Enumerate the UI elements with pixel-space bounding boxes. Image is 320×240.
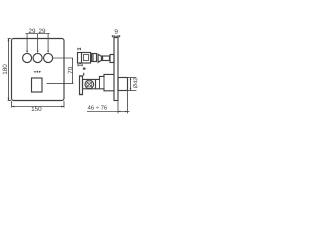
dim text 180 [3, 64, 7, 74]
knob circle left [23, 53, 32, 62]
dim 46-76 line [87, 111, 130, 113]
knurl circle outer [85, 80, 94, 89]
knurl cross line 1 [86, 82, 92, 88]
knurl circle inner [87, 82, 92, 87]
lower body front part [83, 74, 115, 90]
lower flange [80, 76, 83, 95]
tiny dim square center mark [37, 71, 39, 73]
dim 9 ext right [117, 35, 119, 37]
arrowhead circle middle [37, 51, 39, 53]
dim 150 ext left [11, 101, 13, 108]
dim text 150 [32, 107, 42, 111]
arrowhead lower flange dim [83, 74, 85, 76]
dim 180 ext bottom [8, 100, 12, 102]
lower body detail line 1 [95, 79, 97, 88]
lower body rear part [118, 78, 128, 91]
dim 180 line [8, 39, 10, 101]
knob barrel [102, 56, 110, 61]
knurl cross line 2 [86, 82, 92, 88]
arrowhead 180 top [8, 39, 10, 42]
dim text 9 [115, 29, 118, 33]
arrowhead circle left [26, 51, 28, 53]
knob flange [110, 55, 114, 63]
leader from circle right [53, 57, 73, 59]
knob barrel line [102, 56, 104, 61]
lower flange bottom cap [79, 94, 83, 96]
arrowhead circle right [47, 51, 49, 53]
tiny dim above upper body [77, 48, 81, 51]
knob circle middle [33, 53, 42, 62]
front plate [12, 39, 65, 101]
dim 29-29 line [25, 33, 49, 35]
diverter square [32, 78, 43, 92]
upper cartridge divider [81, 53, 83, 64]
dim 150 line [12, 106, 65, 108]
knob cap [98, 54, 101, 62]
arrowhead 70 top [72, 58, 73, 60]
tiny dim above lower flange [83, 73, 85, 76]
upper socket [92, 54, 97, 62]
dim O42 ext bottom [128, 90, 137, 92]
arrowhead 46-76 left [118, 111, 120, 113]
upper cartridge inner box [84, 55, 89, 61]
dim text O42 [133, 78, 137, 88]
dim O42 ext top [128, 77, 137, 79]
tiny label above lower flange [83, 68, 86, 70]
dim 29-29 extension line right [47, 34, 49, 52]
dim 9 end tick right [119, 35, 121, 37]
tiny dim square arrow left [33, 71, 35, 73]
dim O42 line [130, 78, 132, 91]
dim 29-29 extension line middle [37, 34, 39, 52]
arrowhead O42 bottom [130, 88, 132, 90]
dim 9 ext left [113, 35, 115, 37]
dim 9 line [112, 35, 120, 37]
dim text 70 [68, 67, 72, 73]
tiny dim below upper body [77, 64, 82, 67]
dim text 46-76 [88, 105, 107, 109]
arrowhead 70 bottom [72, 82, 73, 84]
upper cartridge body [78, 53, 91, 64]
dim text 29 left [29, 29, 35, 33]
dim 46-76 ext left [117, 101, 119, 114]
knob circle right [44, 53, 53, 62]
dim 9 end tick left [111, 35, 113, 37]
wall plate bar [114, 38, 118, 101]
dim 150 ext right [63, 101, 65, 108]
dim 46-76 ext right [127, 91, 129, 114]
leader lower axis [47, 82, 74, 84]
socket inner line [92, 54, 94, 62]
lower body collar edge [100, 74, 105, 90]
tiny dim square arrow right [39, 71, 41, 73]
dim 180 ext top [8, 38, 12, 40]
arrowhead 150 left [12, 106, 15, 108]
dim 70 line [72, 58, 74, 83]
arrowhead O42 top [130, 78, 132, 80]
dim 29-29 extension line left [26, 34, 28, 52]
arrowhead 46-76 right [125, 111, 127, 113]
dim text 29 right [39, 29, 45, 33]
arrowhead 150 right [61, 106, 64, 108]
arrowhead 180 bottom [8, 98, 10, 101]
lower flange top cap [79, 75, 83, 77]
